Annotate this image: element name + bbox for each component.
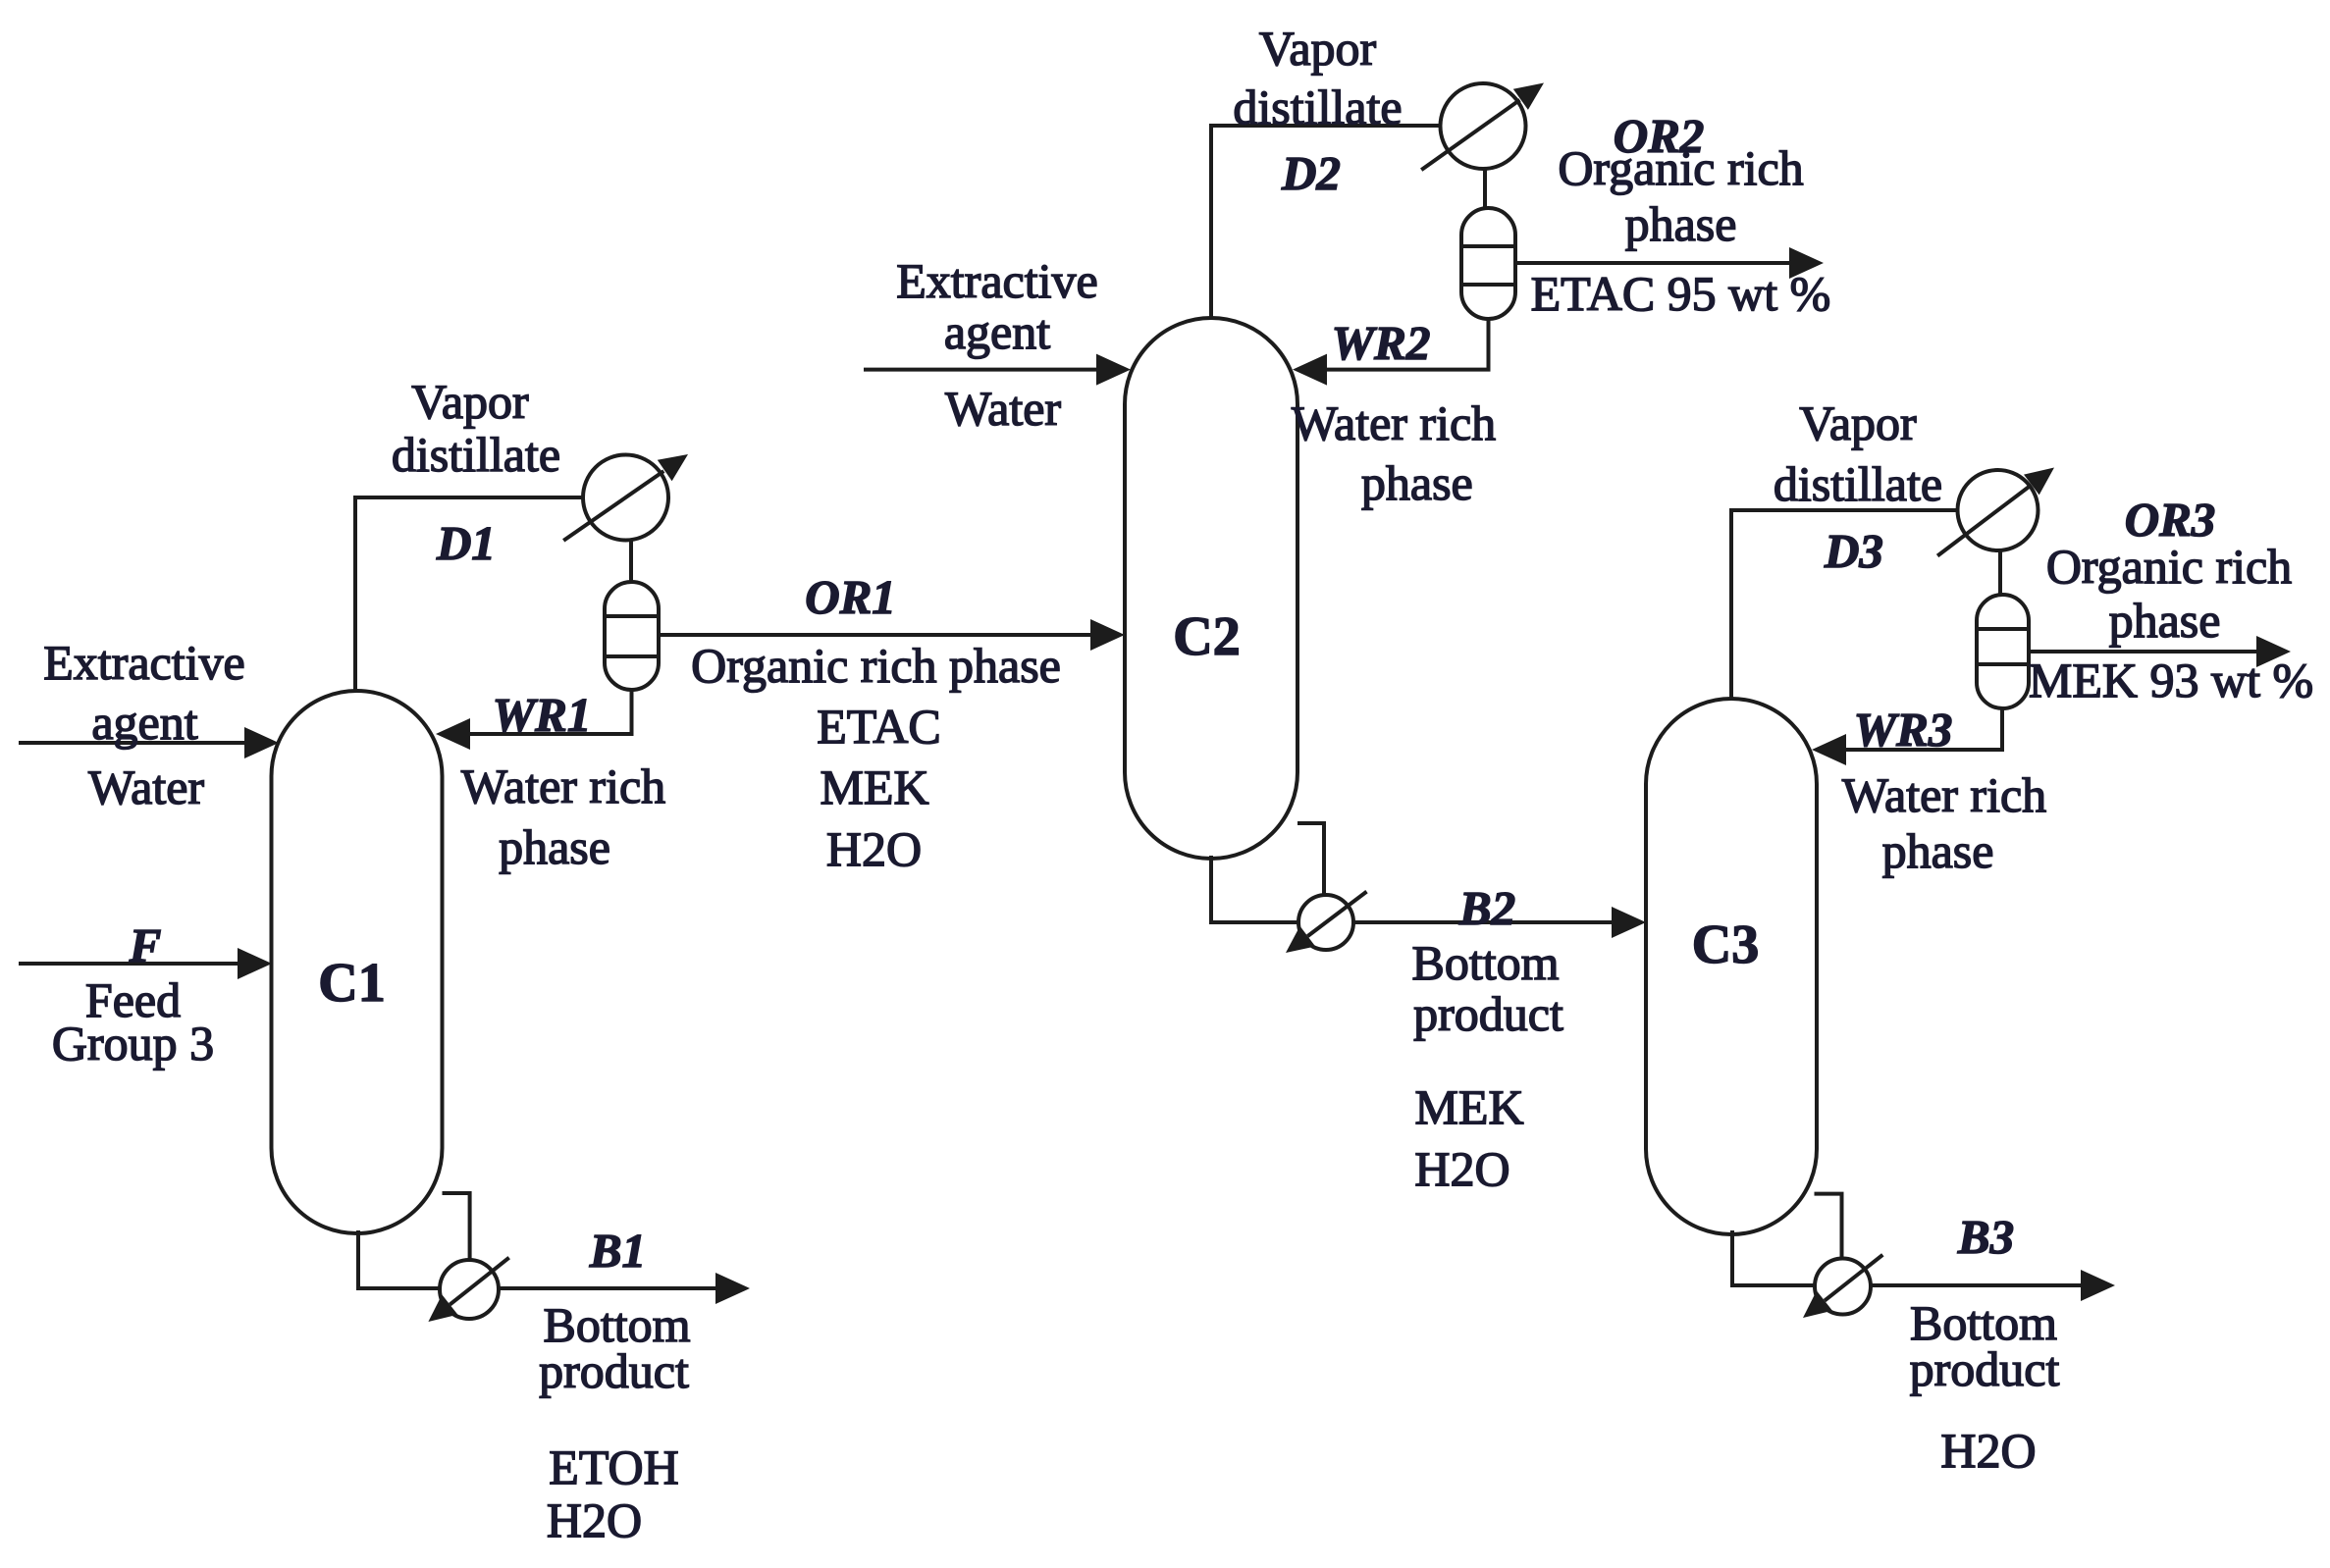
- label product (B1): [539, 1343, 689, 1398]
- label Vapor (C2): [1259, 21, 1377, 76]
- svg-text:Water rich: Water rich: [461, 758, 665, 813]
- stream label B3: [1957, 1210, 2014, 1264]
- svg-text:Vapor: Vapor: [1799, 395, 1917, 450]
- label Vapor (C1): [411, 374, 529, 429]
- svg-text:Water rich: Water rich: [1842, 767, 2046, 822]
- column label C2: [1173, 606, 1240, 667]
- svg-text:D3: D3: [1824, 524, 1883, 578]
- label Group 3: [52, 1016, 214, 1071]
- condenser E1 (C1 overhead): [563, 454, 688, 541]
- svg-text:C2: C2: [1173, 606, 1240, 667]
- stream label B2: [1458, 881, 1515, 935]
- svg-text:B2: B2: [1458, 881, 1515, 935]
- svg-text:C1: C1: [318, 953, 385, 1014]
- svg-text:Organic rich phase: Organic rich phase: [691, 638, 1061, 693]
- svg-text:phase: phase: [1882, 823, 1994, 878]
- stream label WR2: [1332, 316, 1431, 370]
- svg-text:phase: phase: [1625, 196, 1737, 251]
- label Bottom (B1): [543, 1297, 690, 1352]
- svg-text:ETAC 95 wt %: ETAC 95 wt %: [1531, 266, 1831, 321]
- svg-text:phase: phase: [2109, 593, 2221, 648]
- label ETAC 95 wt % (OR2): [1531, 266, 1831, 321]
- distillation column C2: [1125, 318, 1297, 859]
- wire C2 bottoms right outlet: [1297, 823, 1324, 897]
- label phase (C3): [1882, 823, 1994, 878]
- svg-text:Water: Water: [945, 381, 1061, 436]
- svg-text:Organic rich: Organic rich: [2046, 539, 2292, 594]
- svg-text:Vapor: Vapor: [411, 374, 529, 429]
- wire condenser to decanter (C2): [1483, 168, 1487, 209]
- svg-text:ETAC: ETAC: [817, 699, 941, 754]
- svg-text:WR3: WR3: [1854, 703, 1953, 757]
- condenser E2 (C2 overhead): [1421, 83, 1544, 171]
- wire C3 bottoms right outlet: [1815, 1194, 1842, 1259]
- stream B2 arrow: [1353, 907, 1646, 938]
- column label C1: [318, 953, 385, 1014]
- label MEK (B2): [1414, 1079, 1523, 1134]
- svg-text:MEK: MEK: [820, 759, 928, 814]
- label Bottom (B2): [1411, 935, 1559, 990]
- wire C3 bottoms down outlet: [1732, 1230, 1816, 1285]
- label H2O (OR1): [826, 821, 922, 876]
- svg-text:Bottom: Bottom: [1411, 935, 1559, 990]
- label product (B3): [1910, 1341, 2060, 1396]
- column label C3: [1692, 915, 1759, 975]
- stream OR1 arrow: [659, 619, 1125, 651]
- stream label OR2: [1614, 109, 1705, 163]
- stream B3 arrow: [1870, 1270, 2116, 1301]
- label Water rich (C2): [1292, 395, 1496, 450]
- svg-text:OR1: OR1: [805, 570, 896, 624]
- svg-text:Organic rich: Organic rich: [1558, 140, 1803, 195]
- svg-text:F: F: [129, 918, 162, 972]
- svg-text:agent: agent: [91, 695, 197, 750]
- stream extractive agent arrow (C2): [864, 354, 1131, 386]
- stream extractive agent arrow (C1): [19, 727, 279, 758]
- label MEK 93 wt % (OR3): [2029, 653, 2313, 707]
- reboiler R3 (C3): [1803, 1255, 1882, 1318]
- svg-text:phase: phase: [499, 819, 610, 874]
- stream label F: [129, 918, 162, 972]
- svg-text:H2O: H2O: [1940, 1423, 2036, 1478]
- label MEK (OR1): [820, 759, 928, 814]
- wire C3 vapor distillate line: [1731, 510, 1960, 700]
- decanter V1 (C1 reflux drum): [605, 582, 659, 690]
- label ETAC (OR1): [817, 699, 941, 754]
- wire C1 bottoms right outlet: [443, 1193, 470, 1262]
- label Organic rich phase: [691, 638, 1061, 693]
- svg-text:WR1: WR1: [493, 688, 592, 742]
- label phase (OR3): [2109, 593, 2221, 648]
- distillation column C3: [1646, 699, 1817, 1234]
- label H2O (B1): [547, 1492, 642, 1547]
- svg-text:Extractive: Extractive: [896, 253, 1097, 308]
- label Organic rich (OR2): [1558, 140, 1803, 195]
- svg-text:ETOH: ETOH: [549, 1439, 678, 1494]
- label phase (C2): [1361, 455, 1473, 510]
- label H2O (B3): [1940, 1423, 2036, 1478]
- decanter V3 (C3 reflux drum): [1977, 595, 2029, 708]
- svg-text:MEK: MEK: [1414, 1079, 1523, 1134]
- svg-text:C3: C3: [1692, 915, 1759, 975]
- reboiler R2 (C2): [1286, 892, 1367, 953]
- svg-text:product: product: [1413, 986, 1563, 1041]
- wire C1 vapor distillate line: [355, 497, 587, 693]
- svg-text:H2O: H2O: [1414, 1141, 1509, 1196]
- svg-text:agent: agent: [944, 304, 1050, 359]
- stream label D2: [1281, 146, 1341, 200]
- label distillate (C1): [392, 427, 560, 482]
- wire C2 bottoms down outlet: [1211, 856, 1299, 922]
- stream F feed arrow: [19, 948, 272, 979]
- label Water rich (C3): [1842, 767, 2046, 822]
- svg-text:Water: Water: [88, 759, 204, 814]
- svg-text:H2O: H2O: [547, 1492, 642, 1547]
- label Feed: [85, 972, 181, 1027]
- stream label OR1: [805, 570, 896, 624]
- label phase (C1): [499, 819, 610, 874]
- label Water (C1): [88, 759, 204, 814]
- svg-text:MEK 93 wt %: MEK 93 wt %: [2029, 653, 2313, 707]
- reboiler R1 (C1): [428, 1258, 508, 1322]
- distillation column C1: [272, 691, 443, 1233]
- svg-text:Group 3: Group 3: [52, 1016, 214, 1071]
- svg-text:D2: D2: [1281, 146, 1341, 200]
- label phase (OR2): [1625, 196, 1737, 251]
- label H2O (B2): [1414, 1141, 1509, 1196]
- label Bottom (B3): [1910, 1295, 2057, 1350]
- svg-text:B3: B3: [1957, 1210, 2014, 1264]
- stream label D3: [1824, 524, 1883, 578]
- wire condenser to decanter (C3): [1998, 549, 2002, 596]
- wire C2 vapor distillate line: [1211, 126, 1442, 320]
- label Extractive (C2): [896, 253, 1097, 308]
- label Organic rich (OR3): [2046, 539, 2292, 594]
- svg-text:Water rich: Water rich: [1292, 395, 1496, 450]
- label agent (C2): [944, 304, 1050, 359]
- svg-text:distillate: distillate: [1774, 456, 1942, 511]
- label distillate (C3): [1774, 456, 1942, 511]
- svg-text:distillate: distillate: [1233, 79, 1402, 134]
- decanter V2 (C2 reflux drum): [1461, 208, 1515, 319]
- stream label WR3: [1854, 703, 1953, 757]
- svg-text:distillate: distillate: [392, 427, 560, 482]
- svg-text:product: product: [539, 1343, 689, 1398]
- stream WR2 arrow: [1293, 318, 1489, 386]
- svg-text:Vapor: Vapor: [1259, 21, 1377, 76]
- svg-text:WR2: WR2: [1332, 316, 1431, 370]
- label Water (C2): [945, 381, 1061, 436]
- svg-text:Extractive: Extractive: [43, 635, 244, 690]
- label Water rich (C1): [461, 758, 665, 813]
- label distillate (C2): [1233, 79, 1402, 134]
- stream B1 arrow: [500, 1273, 751, 1304]
- stream OR2 arrow: [1515, 247, 1824, 279]
- label Vapor (C3): [1799, 395, 1917, 450]
- label agent (C1): [91, 695, 197, 750]
- condenser E3 (C3 overhead): [1937, 468, 2054, 556]
- label ETOH: [549, 1439, 678, 1494]
- label Extractive (C1): [43, 635, 244, 690]
- svg-text:H2O: H2O: [826, 821, 922, 876]
- stream label OR3: [2125, 493, 2216, 547]
- stream WR1 arrow: [436, 689, 632, 750]
- svg-text:product: product: [1910, 1341, 2060, 1396]
- stream OR3 arrow: [2029, 636, 2291, 667]
- stream label WR1: [493, 688, 592, 742]
- wire condenser to decanter (C1): [629, 541, 633, 584]
- stream WR3 arrow: [1812, 707, 2002, 765]
- stream label D1: [436, 516, 496, 570]
- stream label B1: [589, 1224, 646, 1278]
- svg-text:B1: B1: [589, 1224, 646, 1278]
- wire C1 bottoms down outlet: [358, 1230, 442, 1288]
- label product (B2): [1413, 986, 1563, 1041]
- svg-text:phase: phase: [1361, 455, 1473, 510]
- svg-text:D1: D1: [436, 516, 496, 570]
